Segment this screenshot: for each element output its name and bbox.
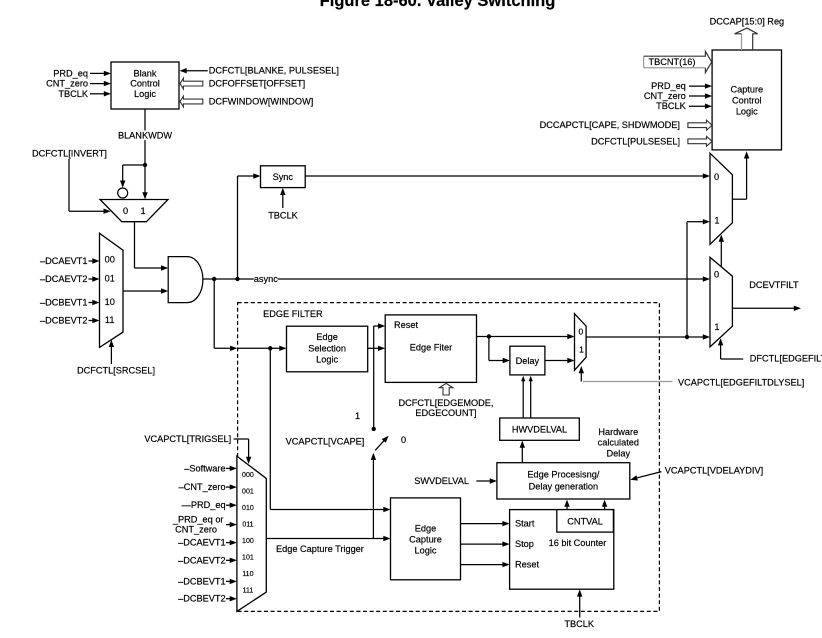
svg-text:–DCAEVT2: –DCAEVT2 xyxy=(178,555,226,565)
svg-text:Edge Fiter: Edge Fiter xyxy=(410,342,452,352)
svg-text:Delay: Delay xyxy=(607,448,631,458)
svg-text:Figure 18-60. Valley Switching: Figure 18-60. Valley Switching xyxy=(320,0,556,10)
svg-text:Edge Procesisng/: Edge Procesisng/ xyxy=(527,470,599,480)
svg-text:Start: Start xyxy=(515,519,535,529)
svg-text:1: 1 xyxy=(355,411,360,421)
svg-text:Stop: Stop xyxy=(515,539,534,549)
svg-text:EDGE FILTER: EDGE FILTER xyxy=(263,309,323,319)
svg-text:CNT_zero: CNT_zero xyxy=(46,79,88,89)
svg-text:CNT_zero: CNT_zero xyxy=(644,91,686,101)
svg-text:100: 100 xyxy=(242,538,254,545)
svg-text:CNTVAL: CNTVAL xyxy=(567,517,603,527)
svg-text:000: 000 xyxy=(242,472,254,479)
svg-text:DCCAPCTL[CAPE, SHDWMODE]: DCCAPCTL[CAPE, SHDWMODE] xyxy=(540,120,680,130)
svg-text:Delay generation: Delay generation xyxy=(529,481,598,491)
svg-text:101: 101 xyxy=(242,555,254,562)
svg-text:0: 0 xyxy=(401,435,406,445)
svg-text:Control: Control xyxy=(130,79,160,89)
svg-text:Sync: Sync xyxy=(273,172,294,182)
svg-text:110: 110 xyxy=(242,571,253,578)
svg-text:1: 1 xyxy=(714,216,719,226)
svg-text:VCAPCTL[VDELAYDIV]: VCAPCTL[VDELAYDIV] xyxy=(665,466,763,476)
svg-text:00: 00 xyxy=(105,255,115,265)
svg-text:HWVDELVAL: HWVDELVAL xyxy=(512,424,567,434)
svg-text:BLANKWDW: BLANKWDW xyxy=(118,130,172,140)
svg-text:10: 10 xyxy=(105,297,115,307)
svg-text:Reset: Reset xyxy=(515,560,539,570)
svg-text:VCAPCTL[VCAPE]: VCAPCTL[VCAPE] xyxy=(286,436,365,446)
svg-text:1: 1 xyxy=(140,206,145,216)
svg-text:001: 001 xyxy=(242,489,254,496)
svg-text:Blank: Blank xyxy=(134,68,157,78)
svg-text:1: 1 xyxy=(579,345,584,355)
svg-text:DCEVTFILT: DCEVTFILT xyxy=(749,280,799,290)
svg-text:1: 1 xyxy=(714,322,719,332)
svg-text:–Software: –Software xyxy=(184,463,225,473)
svg-text:CNT_zero: CNT_zero xyxy=(175,525,217,535)
svg-text:DCFCTL[BLANKE, PULSESEL]: DCFCTL[BLANKE, PULSESEL] xyxy=(209,66,339,76)
svg-text:PRD_eq: PRD_eq xyxy=(651,81,686,91)
svg-text:0: 0 xyxy=(123,206,128,216)
svg-text:Control: Control xyxy=(732,96,762,106)
svg-text:011: 011 xyxy=(242,522,253,529)
svg-text:DCFCTL[PULSESEL]: DCFCTL[PULSESEL] xyxy=(591,136,680,146)
svg-text:DFCTL[EDGEFILT: DFCTL[EDGEFILT xyxy=(750,354,822,364)
svg-text:TBCLK: TBCLK xyxy=(58,89,88,99)
svg-text:Logic: Logic xyxy=(134,89,156,99)
svg-text:–DCAEVT2: –DCAEVT2 xyxy=(40,274,88,284)
svg-text:–DCBEVT2: –DCBEVT2 xyxy=(40,316,88,326)
svg-text:—PRD_eq: —PRD_eq xyxy=(182,500,226,510)
svg-text:Edge: Edge xyxy=(316,332,337,342)
svg-text:DCCAP[15:0] Reg: DCCAP[15:0] Reg xyxy=(710,17,785,27)
svg-text:16 bit Counter: 16 bit Counter xyxy=(549,538,607,548)
svg-text:calculated: calculated xyxy=(598,438,639,448)
svg-text:–DCBEVT2: –DCBEVT2 xyxy=(178,594,226,604)
svg-text:0: 0 xyxy=(579,327,584,337)
svg-text:Delay: Delay xyxy=(516,356,540,366)
svg-text:–DCBEVT1: –DCBEVT1 xyxy=(178,576,226,586)
svg-text:01: 01 xyxy=(105,274,115,284)
svg-text:async: async xyxy=(254,274,278,284)
svg-text:–DCAEVT1: –DCAEVT1 xyxy=(178,538,226,548)
svg-text:Logic: Logic xyxy=(736,106,758,116)
svg-text:11: 11 xyxy=(105,315,115,325)
svg-text:PRD_eq: PRD_eq xyxy=(53,68,88,78)
svg-text:Hardware: Hardware xyxy=(598,427,638,437)
svg-text:VCAPCTL[TRIGSEL]: VCAPCTL[TRIGSEL] xyxy=(144,434,231,444)
svg-text:Reset: Reset xyxy=(394,320,418,330)
svg-text:TBCLK: TBCLK xyxy=(656,101,686,111)
svg-text:Logic: Logic xyxy=(415,545,437,555)
svg-text:Selection: Selection xyxy=(308,343,346,353)
svg-text:_PRD_eq or: _PRD_eq or xyxy=(172,515,224,525)
svg-text:010: 010 xyxy=(242,505,254,512)
svg-text:SWVDELVAL: SWVDELVAL xyxy=(414,476,469,486)
svg-text:–DCBEVT1: –DCBEVT1 xyxy=(40,298,88,308)
svg-text:0: 0 xyxy=(714,172,719,182)
svg-text:Capture: Capture xyxy=(730,85,763,95)
svg-text:Logic: Logic xyxy=(316,355,338,365)
svg-text:DCFOFFSET[OFFSET]: DCFOFFSET[OFFSET] xyxy=(209,79,305,89)
svg-text:0: 0 xyxy=(714,270,719,280)
svg-text:TBCLK: TBCLK xyxy=(564,619,594,629)
svg-text:TBCLK: TBCLK xyxy=(268,211,298,221)
svg-text:DCFCTL[EDGEMODE,: DCFCTL[EDGEMODE, xyxy=(399,398,494,408)
svg-text:VCAPCTL[EDGEFILTDLYSEL]: VCAPCTL[EDGEFILTDLYSEL] xyxy=(678,377,804,387)
svg-text:DCFCTL[INVERT]: DCFCTL[INVERT] xyxy=(32,149,107,159)
svg-text:Capture: Capture xyxy=(409,535,442,545)
svg-text:EDGECOUNT]: EDGECOUNT] xyxy=(415,408,476,418)
svg-text:–DCAEVT1: –DCAEVT1 xyxy=(40,256,88,266)
svg-text:DCFCTL[SRCSEL]: DCFCTL[SRCSEL] xyxy=(77,366,155,376)
svg-text:TBCNT(16): TBCNT(16) xyxy=(649,57,696,67)
svg-text:111: 111 xyxy=(243,588,254,595)
svg-text:Edge Capture Trigger: Edge Capture Trigger xyxy=(276,544,364,554)
svg-text:DCFWINDOW[WINDOW]: DCFWINDOW[WINDOW] xyxy=(209,97,314,107)
svg-text:Edge: Edge xyxy=(415,524,436,534)
svg-text:–CNT_zero: –CNT_zero xyxy=(179,482,226,492)
